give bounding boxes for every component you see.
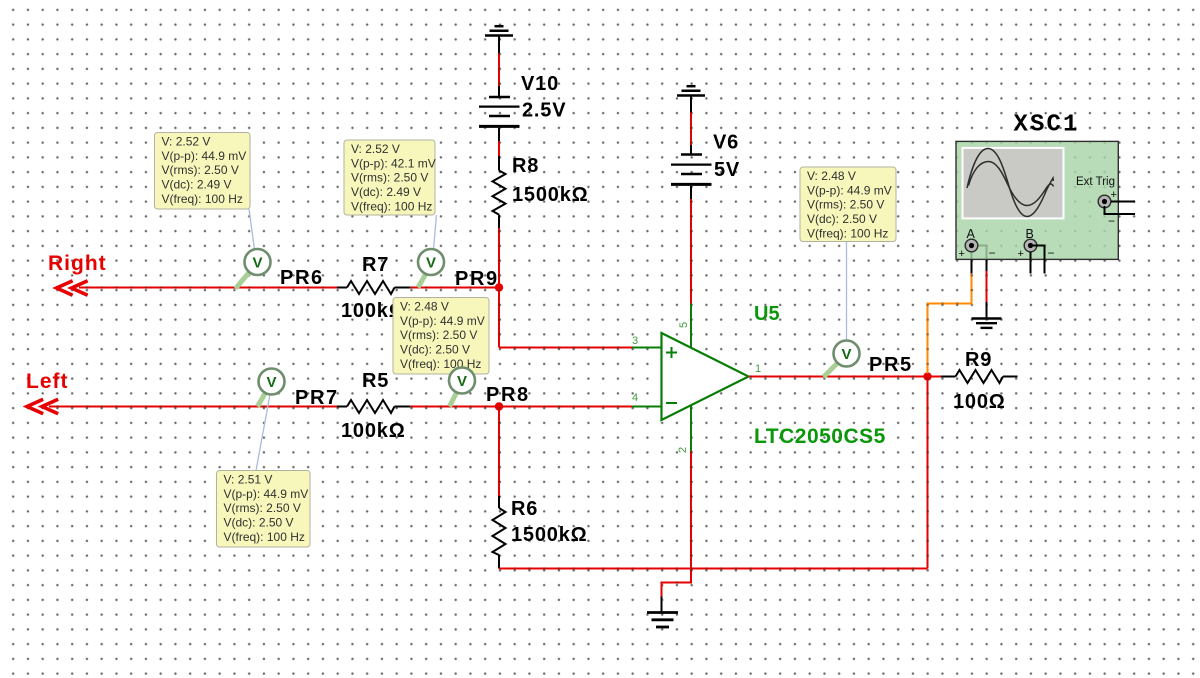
svg-text:V(freq): 100 Hz: V(freq): 100 Hz (162, 192, 243, 206)
svg-text:V: V (841, 346, 851, 363)
terminal Ext Trig (1098, 195, 1111, 208)
svg-text:Right: Right (48, 252, 107, 275)
svg-text:Left: Left (26, 370, 69, 393)
wire (B + stub) (1030, 252, 1032, 274)
measurement box (PR9) (344, 140, 436, 215)
ground (above V6) (677, 86, 705, 95)
svg-text:R8: R8 (512, 155, 539, 177)
svg-text:V: V (426, 255, 436, 272)
pin 3 stub (632, 347, 662, 349)
svg-text:R7: R7 (362, 254, 389, 276)
svg-text:100kΩ: 100kΩ (341, 420, 406, 442)
svg-text:−: − (1108, 214, 1115, 228)
pin 2 stub (690, 406, 692, 452)
svg-text:V(dc): 2.50 V: V(dc): 2.50 V (400, 343, 470, 357)
svg-text:PR7: PR7 (295, 387, 339, 409)
junction PR9 (495, 283, 503, 291)
junction (output node) (923, 372, 931, 380)
op-amp U5 body (662, 333, 749, 420)
wire grid ticks (orange net) (926, 275, 972, 364)
wire (Right net to R7) (79, 287, 347, 289)
probe PR5 (824, 341, 860, 378)
svg-text:U5: U5 (754, 303, 780, 325)
svg-text:PR6: PR6 (280, 267, 324, 289)
wire (op-amp output to node PR5) (749, 376, 928, 378)
wire (ground to V10 battery) (498, 37, 500, 98)
wire (junction PR9 down to pin3 level) (498, 288, 500, 348)
wire (R5 to junction PR8) (410, 406, 499, 408)
svg-text:+: + (1111, 189, 1117, 201)
svg-text:V(p-p): 44.9 mV: V(p-p): 44.9 mV (224, 487, 309, 501)
svg-text:V(p-p): 44.9 mV: V(p-p): 44.9 mV (400, 314, 485, 328)
svg-text:V(rms): 2.50 V: V(rms): 2.50 V (351, 171, 428, 185)
svg-text:1500kΩ: 1500kΩ (511, 524, 587, 546)
terminal A (965, 239, 978, 252)
svg-text:V: V (457, 373, 467, 390)
measurement box (PR7) (217, 471, 311, 548)
svg-text:PR5: PR5 (869, 354, 913, 376)
wire (B - stub) (1031, 246, 1045, 274)
svg-text:V(rms): 2.50 V: V(rms): 2.50 V (224, 501, 301, 515)
svg-text:+: + (959, 248, 965, 260)
terminal B (1024, 239, 1037, 252)
svg-text:V: V (252, 255, 262, 272)
svg-text:R9: R9 (965, 349, 992, 371)
probe PR7 (258, 369, 285, 407)
wire (R5 right lead) (395, 406, 411, 408)
svg-text:5: 5 (678, 322, 690, 328)
probe PR6 (236, 249, 271, 289)
wire (junction PR8 down to R6) (498, 407, 500, 509)
probe PR8 (449, 368, 475, 407)
wire (to op-amp pin3) (499, 347, 632, 349)
pin 5 stub (690, 304, 692, 349)
leader line (box to probe PR5) (846, 242, 848, 341)
ground (scope A-) (972, 319, 1002, 328)
ground (below op-amp) (647, 613, 678, 628)
svg-text:V: 2.48 V: V: 2.48 V (807, 169, 856, 183)
svg-text:V: V (266, 374, 276, 391)
svg-text:2: 2 (677, 447, 689, 453)
resistor R9 (956, 370, 1004, 383)
svg-text:V(freq): 100 Hz: V(freq): 100 Hz (224, 530, 305, 544)
measurement box (PR6) (155, 133, 251, 210)
svg-text:V(p-p): 44.9 mV: V(p-p): 44.9 mV (807, 183, 892, 197)
svg-text:V: 2.52 V: V: 2.52 V (162, 135, 211, 149)
wire (feedback bottom run) (499, 568, 928, 570)
svg-text:XSC1: XSC1 (1013, 112, 1079, 139)
measurement box (PR8) (393, 298, 489, 375)
svg-text:V(freq): 100 Hz: V(freq): 100 Hz (351, 199, 432, 213)
svg-text:−: − (989, 246, 996, 260)
svg-text:V6: V6 (713, 132, 739, 154)
wire (R6 bottom lead) (498, 555, 500, 569)
wire (output node to R9) (928, 376, 956, 378)
oscilloscope XSC1 body (956, 141, 1118, 259)
wire grid ticks (red nets) (58, 54, 988, 584)
svg-text:V(p-p): 42.1 mV: V(p-p): 42.1 mV (351, 156, 436, 170)
svg-text:1: 1 (755, 363, 761, 375)
svg-text:V(dc): 2.50 V: V(dc): 2.50 V (807, 212, 877, 226)
resistor R8 (493, 171, 506, 215)
wire (R8 to node PR9) (498, 215, 500, 288)
wire (R7 right lead) (395, 287, 411, 289)
measurement box (PR5) (800, 167, 896, 242)
net arrow (Left, off-page connector) (27, 400, 57, 413)
net arrow (Right, off-page connector) (57, 282, 87, 295)
wire (junction PR8 to op-amp pin4) (499, 406, 632, 408)
wire (V6 to op-amp pin5) (690, 186, 692, 304)
scope trace B (969, 162, 1054, 206)
svg-text:+: + (1018, 248, 1024, 260)
wire (Left net to R5) (49, 406, 347, 408)
wire (scope A+ stub, black) (971, 252, 973, 274)
svg-text:PR8: PR8 (486, 384, 530, 406)
wire (scope A- down to ground) (972, 246, 987, 318)
svg-text:V(rms): 2.50 V: V(rms): 2.50 V (162, 163, 239, 177)
battery V6 (671, 155, 712, 185)
svg-text:1500kΩ: 1500kΩ (512, 184, 588, 206)
wire (Ext Trig + stub) (1111, 201, 1135, 203)
oscilloscope screen (962, 147, 1065, 220)
svg-text:4: 4 (632, 392, 638, 404)
battery V10 (479, 97, 520, 126)
svg-text:R6: R6 (511, 498, 538, 520)
svg-text:Ext Trig: Ext Trig (1076, 176, 1115, 188)
leader line (box to probe PR6) (249, 209, 255, 250)
wire (output node down to feedback run) (927, 377, 929, 569)
probe PR9 (418, 249, 444, 288)
leader line (box to probe PR9) (434, 215, 437, 249)
svg-text:V: 2.51 V: V: 2.51 V (224, 473, 273, 487)
svg-text:V(freq): 100 Hz: V(freq): 100 Hz (807, 226, 888, 240)
wire (R7 to junction PR9) (410, 287, 499, 289)
svg-text:3: 3 (632, 335, 638, 347)
svg-text:5V: 5V (714, 159, 740, 181)
svg-text:−: − (1048, 246, 1055, 260)
svg-text:R5: R5 (362, 370, 389, 392)
wire (R9 right lead) (1003, 376, 1018, 378)
svg-text:LTC2050CS5: LTC2050CS5 (754, 425, 886, 448)
svg-text:V: 2.48 V: V: 2.48 V (400, 300, 449, 314)
wire (ground to V6 battery) (690, 97, 692, 155)
svg-text:2.5V: 2.5V (522, 100, 566, 122)
wire (pin2 to ground jog) (662, 451, 692, 612)
svg-text:V(rms): 2.50 V: V(rms): 2.50 V (400, 328, 477, 342)
svg-text:V(dc): 2.49 V: V(dc): 2.49 V (162, 178, 232, 192)
pin 4 stub (632, 406, 662, 408)
svg-text:PR9: PR9 (455, 268, 499, 290)
wire (V10 to R8) (498, 128, 500, 171)
svg-text:V(dc): 2.50 V: V(dc): 2.50 V (224, 516, 294, 530)
leader line (box to probe PR7) (256, 395, 270, 471)
svg-text:V: 2.52 V: V: 2.52 V (351, 142, 400, 156)
svg-text:V(p-p): 44.9 mV: V(p-p): 44.9 mV (162, 149, 247, 163)
resistor R6 (493, 508, 506, 555)
scope trace A (967, 149, 1053, 217)
junction PR8 (495, 402, 503, 410)
svg-text:V(dc): 2.49 V: V(dc): 2.49 V (351, 185, 421, 199)
svg-text:V(rms): 2.50 V: V(rms): 2.50 V (807, 198, 884, 212)
resistor R5 (347, 400, 395, 413)
svg-text:V10: V10 (521, 73, 559, 95)
ground (above V10) (485, 26, 513, 35)
svg-text:100Ω: 100Ω (953, 391, 1006, 413)
wire (Ext Trig - stub) (1105, 206, 1136, 214)
resistor R7 (347, 281, 395, 294)
wire (orange, scope A+ to output node) (928, 273, 972, 374)
